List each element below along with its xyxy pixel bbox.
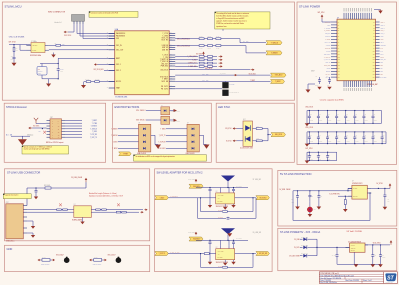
svg-text:USB_RE: USB_RE xyxy=(162,49,168,51)
svg-text:VDD_1: VDD_1 xyxy=(116,64,121,66)
power arrow left GND group xyxy=(39,259,40,261)
MCU U? STM32F723 main xyxy=(337,19,376,80)
svg-text:T_NRST: T_NRST xyxy=(112,148,118,150)
capacitor C row1 #8 100nF xyxy=(372,111,374,117)
wire USB D- to filter xyxy=(27,209,74,211)
svg-text:T_SWDIO: T_SWDIO xyxy=(91,126,98,128)
svg-text:Ceramic capacitor (Low ESR): Ceramic capacitor (Low ESR) xyxy=(320,98,344,101)
svg-text:3V3_STLK_MCU: 3V3_STLK_MCU xyxy=(94,69,104,71)
power flag above pill xyxy=(195,233,197,235)
svg-text:100nF: 100nF xyxy=(356,141,359,143)
wire shifter to output pill xyxy=(235,197,256,199)
level shifter IC SN74LVC1T45 xyxy=(216,249,235,260)
svg-text:T_VCP_TX: T_VCP_TX xyxy=(159,135,166,137)
block frame ST-LINK POWER 3V3 xyxy=(278,228,397,270)
wire enable to IC xyxy=(338,195,352,197)
svg-text:T_SWO: T_SWO xyxy=(113,141,118,143)
svg-text:OSC_IN: OSC_IN xyxy=(326,62,331,64)
wire U5A to series resistors row1 xyxy=(175,38,199,40)
wire rail to shifter VccA drop xyxy=(220,192,222,194)
wire bus to LDO xyxy=(317,246,350,248)
gnd rail row2 xyxy=(307,143,386,145)
svg-text:STLK_TX: STLK_TX xyxy=(161,38,168,40)
svg-text:STLINKV3E_MB?: STLINKV3E_MB? xyxy=(367,84,378,86)
svg-text:USBLC6-4SC6: USBLC6-4SC6 xyxy=(186,153,195,155)
bias resistor R 10K vertical xyxy=(13,45,15,48)
jumper resistor to plane xyxy=(92,259,93,261)
svg-text:PH0: PH0 xyxy=(380,48,383,50)
svg-text:T_JTDI: T_JTDI xyxy=(163,57,169,59)
ground triangle below rail xyxy=(354,264,359,267)
svg-text:ST-LINK POWER: ST-LINK POWER xyxy=(299,5,320,9)
U? left pins xyxy=(331,21,337,23)
svg-text:STLK_MCO: STLK_MCO xyxy=(160,76,169,78)
power flag into STDC14 xyxy=(30,127,32,129)
svg-text:T_5V_PWR_EN: T_5V_PWR_EN xyxy=(329,193,340,195)
power flag above pill xyxy=(195,181,197,183)
svg-text:DIR GND: DIR GND xyxy=(218,201,223,203)
series resistor sub2 input xyxy=(204,253,209,255)
svg-text:R? 15: R? 15 xyxy=(208,36,212,38)
svg-text:100nF: 100nF xyxy=(365,141,368,143)
svg-text:T_SWCLK: T_SWCLK xyxy=(111,135,118,137)
level shifter IC SN74LVC1T45 xyxy=(216,193,235,204)
svg-text:100nF: 100nF xyxy=(319,141,322,143)
power flag row into U5A left xyxy=(96,64,98,66)
wire STDC14 to net T_NRST xyxy=(65,119,82,121)
svg-text:100nF: 100nF xyxy=(374,141,377,143)
svg-text:C?_DNF: C?_DNF xyxy=(218,217,223,219)
output wire VDD_STLK xyxy=(365,244,390,246)
svg-text:R?__L5R: R?__L5R xyxy=(243,41,248,43)
wire to gnd STDC14 xyxy=(11,135,30,137)
output wire 5V_STLK xyxy=(371,187,390,189)
capacitor C row2 #2 100nF xyxy=(317,132,319,137)
capacitor C 4.7uF input xyxy=(297,191,299,196)
svg-text:100nF: 100nF xyxy=(328,141,331,143)
wire rail to shifter VccA drop xyxy=(220,246,222,249)
pill STLK_MCO xyxy=(271,73,287,77)
wire U5A NRST to pill T_NRST xyxy=(175,81,270,83)
svg-text:100nF: 100nF xyxy=(356,120,359,122)
svg-text:USBLC6-4SC6: USBLC6-4SC6 xyxy=(137,153,146,155)
svg-text:GND?: GND? xyxy=(311,71,315,73)
series resistor on D- line xyxy=(57,209,62,211)
ground rail of LDO xyxy=(337,263,381,265)
svg-text:VDD OUT: VDD OUT xyxy=(32,45,37,47)
svg-text:VDD_1: VDD_1 xyxy=(380,22,384,24)
svg-text:5V_USB: 5V_USB xyxy=(294,239,299,241)
svg-text:VDD_STLK: VDD_STLK xyxy=(305,127,313,129)
power flag 3V3_STLK at SWD xyxy=(65,31,67,33)
pill VDD_MCU xyxy=(189,184,203,188)
ground plane triangle xyxy=(227,233,232,237)
pill T_PWR_EN above U5A xyxy=(217,25,230,28)
capacitor C row2 #9 100nF xyxy=(381,132,383,137)
power flag 3V3_STLK middle xyxy=(203,53,205,55)
ground under oscillator xyxy=(53,53,55,55)
capacitor C row1 #4 100nF xyxy=(336,111,338,117)
net row LED_STLK xyxy=(175,69,250,71)
svg-text:T_NRST: T_NRST xyxy=(275,81,281,83)
vdd plane triangle xyxy=(221,176,235,182)
block frame ST-LINK POWER xyxy=(297,2,397,164)
note connector on border of PCB xyxy=(89,12,138,18)
svg-text:SW LEVEL ADAPTER FOR MCO_STM 2: SW LEVEL ADAPTER FOR MCO_STM 2 xyxy=(157,172,204,175)
svg-text:U?: U? xyxy=(216,191,218,193)
power arrow left GND group xyxy=(91,259,92,261)
wire bead to 5V flag xyxy=(51,187,86,189)
ground below LED xyxy=(308,214,313,217)
svg-text:U?: U? xyxy=(216,247,218,249)
svg-text:IN OUT: IN OUT xyxy=(353,188,357,190)
capacitor C17 xyxy=(13,52,15,55)
svg-text:STDC14 Receiver: STDC14 Receiver xyxy=(6,105,27,109)
wire rail to shifter VccA xyxy=(220,240,222,245)
ground stub LDO xyxy=(353,252,355,264)
DNF cross mark on D line xyxy=(59,203,62,206)
svg-text:EN BYP: EN BYP xyxy=(351,250,355,252)
wire 3V3 rail to oscillator xyxy=(9,44,31,46)
ground of right ESD array xyxy=(199,134,203,136)
wire STDC14 to net T_SWCLK xyxy=(65,128,82,130)
wire R to U5A OSC_IN xyxy=(61,44,115,46)
svg-text:MCO: MCO xyxy=(327,24,330,26)
svg-text:C?_1n: C?_1n xyxy=(60,68,64,70)
svg-text:100nF: 100nF xyxy=(346,141,349,143)
svg-text:C?_100nF: C?_100nF xyxy=(236,238,242,240)
svg-text:R? 15: R? 15 xyxy=(199,36,203,38)
svg-text:BYP_REG: BYP_REG xyxy=(380,77,386,79)
oscillator X1 8MHz xyxy=(31,43,45,53)
svg-text:STLK_TX: STLK_TX xyxy=(325,22,331,24)
ground below right capacitor xyxy=(231,205,235,208)
svg-text:R? 0R: R? 0R xyxy=(94,257,98,259)
svg-text:Made for Plane: Made for Plane xyxy=(41,264,50,266)
svg-text:PB_OUT2: PB_OUT2 xyxy=(161,88,168,90)
svg-text:T_VCP_RX: T_VCP_RX xyxy=(90,134,97,136)
capacitor C row1 #1 100nF xyxy=(308,111,310,117)
svg-text:T_JTCK: T_JTCK xyxy=(162,33,168,35)
svg-text:GND NC: GND NC xyxy=(351,248,356,250)
wire rail row3 xyxy=(307,151,337,153)
svg-text:OSC_OUT: OSC_OUT xyxy=(324,65,330,67)
U? top pins xyxy=(343,13,345,19)
U? right pins xyxy=(376,21,380,23)
capacitor C row2 #7 100nF xyxy=(363,132,365,137)
capacitor C 1uF under U? xyxy=(329,77,331,80)
ESD channel T_VCP_TX right array xyxy=(192,134,194,136)
capacitor C row2 #6 100nF xyxy=(354,132,356,137)
svg-text:3V3_STLK: 3V3_STLK xyxy=(64,35,71,37)
svg-text:100nF: 100nF xyxy=(383,141,386,143)
svg-text:T_NRST: T_NRST xyxy=(250,80,256,82)
capacitor C row2 #1 100nF xyxy=(308,132,310,137)
svg-text:LED_STLK: LED_STLK xyxy=(275,134,282,136)
svg-text:PH1: PH1 xyxy=(380,51,383,53)
svg-text:-C17: -C17 xyxy=(10,56,13,58)
svg-text:SB?: SB? xyxy=(38,68,41,70)
capacitor C row2 #8 100nF xyxy=(372,132,374,137)
block frame 5V ST-LINK PROTECTION xyxy=(278,170,397,226)
svg-text:100nF: 100nF xyxy=(337,120,340,122)
svg-text:100nF: 100nF xyxy=(382,257,386,259)
capacitor C row1 #7 100nF xyxy=(363,111,365,117)
svg-text:NX3225GD 8MHz: NX3225GD 8MHz xyxy=(30,55,41,57)
svg-text:Made for Plane: Made for Plane xyxy=(93,264,102,266)
wire USB ID to ground xyxy=(27,220,33,222)
svg-text:GND: GND xyxy=(7,247,13,251)
svg-text:1uF: 1uF xyxy=(319,158,321,160)
ground below input cap xyxy=(295,207,300,210)
block frame STDC14 xyxy=(4,103,105,162)
svg-text:PCB: MB1440_V3E rev B: PCB: MB1440_V3E rev B xyxy=(320,273,338,275)
svg-text:STLK_RX: STLK_RX xyxy=(325,42,331,44)
ESD channel T_NRST left array xyxy=(143,147,145,149)
no-connect cross on STDC14 xyxy=(43,131,46,134)
DNF capacitor loop xyxy=(197,198,199,219)
jumper resistor to plane xyxy=(41,259,42,261)
pill VDD_MCU xyxy=(189,237,203,241)
svg-text:File: STLINK_V3E.SchDoc: File: STLINK_V3E.SchDoc xyxy=(320,282,337,284)
svg-text:BOOT0: BOOT0 xyxy=(326,71,331,73)
svg-text:T_VCP_TX: T_VCP_TX xyxy=(324,56,331,58)
svg-text:C?_100nF: C?_100nF xyxy=(236,185,242,187)
svg-text:VD?: VD? xyxy=(38,130,41,132)
diode OR bus xyxy=(316,239,318,256)
ESD diode D? top 1 xyxy=(161,107,170,115)
svg-text:T_SWDIO: T_SWDIO xyxy=(271,53,279,55)
ESD array U? USBLC6-4 right xyxy=(187,124,199,152)
svg-text:impedance lines.: impedance lines. xyxy=(216,26,227,28)
USB connector CN? micro-B xyxy=(6,204,24,239)
svg-text:ST-LINK USB CONNECTOR: ST-LINK USB CONNECTOR xyxy=(7,171,40,175)
svg-text:VDD_2: VDD_2 xyxy=(116,70,121,72)
capacitor C reset 4.7uF xyxy=(57,65,59,69)
wire IC input jog xyxy=(347,188,349,190)
block frame STLINK_MCU xyxy=(2,2,294,100)
ground below boot resistors xyxy=(83,82,85,85)
oscillator pin stubs xyxy=(27,44,32,46)
power flag into LED anode2 xyxy=(234,140,236,142)
svg-text:4K7: 4K7 xyxy=(257,126,260,128)
svg-text:LED_STLK: LED_STLK xyxy=(160,69,168,71)
wire VBUS from connector xyxy=(26,188,28,206)
svg-text:T_SWO: T_SWO xyxy=(326,45,331,47)
svg-text:VSS: VSS xyxy=(116,38,119,40)
ESD channel T_VBUS right array xyxy=(192,128,194,130)
ESD diode D? top 2 xyxy=(161,116,170,124)
svg-text:PE4: PE4 xyxy=(380,68,383,70)
svg-text:BOOT0: BOOT0 xyxy=(116,81,121,83)
capacitor C row2 #4 100nF xyxy=(336,132,338,137)
svg-text:U?: U? xyxy=(139,123,141,125)
capacitor close to pin1 xyxy=(35,188,37,191)
svg-text:C?_1uF: C?_1uF xyxy=(332,255,336,257)
vdd rail wire xyxy=(196,239,248,241)
wire into top ESD 1 xyxy=(146,109,161,111)
svg-text:T_SWDIO: T_SWDIO xyxy=(111,128,117,130)
svg-text:R?_DNF: R?_DNF xyxy=(218,210,223,212)
svg-text:USB_DP: USB_DP xyxy=(162,47,168,49)
svg-text:VSS_2: VSS_2 xyxy=(380,33,384,35)
DNF resistor loop xyxy=(200,198,202,212)
wire LED1 to resistor xyxy=(253,128,257,130)
capacitor C row3 #2 xyxy=(317,152,319,155)
pill T_SWDIO xyxy=(266,51,282,55)
ground below output cap 1 xyxy=(371,264,376,267)
output pill xyxy=(256,252,270,256)
capacitor C row2 #5 100nF xyxy=(345,132,347,137)
svg-text:3C?__L5R: 3C?__L5R xyxy=(202,74,208,76)
antenna shield symbol xyxy=(35,120,37,123)
svg-text:T_VCP_TX: T_VCP_TX xyxy=(90,137,97,139)
svg-text:USB_DP: USB_DP xyxy=(325,36,330,38)
wire STDC14 to net T_VCP_TX xyxy=(65,136,82,138)
svg-text:IN OUT: IN OUT xyxy=(351,245,355,247)
svg-text:EXT-COLM-?: EXT-COLM-? xyxy=(108,255,116,257)
svg-text:USB_DM: USB_DM xyxy=(162,45,169,47)
capacitor C mid xyxy=(309,191,311,196)
gnd arrow top ESD 1 xyxy=(170,109,174,111)
svg-text:T_MCO: T_MCO xyxy=(159,197,164,199)
input capacitor LDO xyxy=(336,247,338,253)
vdd plane triangle xyxy=(221,228,235,234)
DNF resistor loop xyxy=(200,254,202,268)
svg-text:4.7uF: 4.7uF xyxy=(291,201,294,203)
svg-text:T_SWDIO: T_SWDIO xyxy=(324,27,330,29)
main 5V wire xyxy=(293,190,352,192)
transistor Q1 SOT23 xyxy=(222,82,228,88)
svg-text:PE5: PE5 xyxy=(380,71,383,73)
wire into top ESD 2 xyxy=(146,119,161,121)
U5A right pins with names xyxy=(169,33,175,35)
svg-text:DIR GND: DIR GND xyxy=(218,256,223,258)
resistor R? 12M xyxy=(56,44,61,46)
ground row1 xyxy=(305,123,310,126)
FLG loop wire xyxy=(292,191,294,221)
svg-text:STLK_MCO: STLK_MCO xyxy=(158,148,165,150)
svg-text:T_NRST: T_NRST xyxy=(325,39,330,41)
svg-text:3C?__L2R: 3C?__L2R xyxy=(202,80,208,82)
note routing of leads (top right of block A) xyxy=(215,12,270,29)
wire input to shifter xyxy=(168,253,215,255)
svg-text:STLK_SWDIO 1: STLK_SWDIO 1 xyxy=(136,110,146,112)
svg-text:T_VCP_RX: T_VCP_RX xyxy=(323,59,330,61)
svg-text:R? 15: R? 15 xyxy=(216,48,220,50)
block frame ESD PROTECTIONS xyxy=(113,103,212,162)
svg-text:LED_STLK: LED_STLK xyxy=(205,68,212,70)
svg-text:100nF: 100nF xyxy=(374,120,377,122)
wire SWD pin2 to U5A SWCLK xyxy=(76,24,78,34)
ground below right capacitor xyxy=(231,262,235,265)
svg-text:100nF: 100nF xyxy=(315,85,319,87)
ground below shifter xyxy=(224,260,226,263)
wire U5A MCO to pill STLK_MCO xyxy=(175,74,270,76)
wire SWD pin3 to U5A SWDIO xyxy=(79,24,81,36)
svg-text:100nF: 100nF xyxy=(319,120,322,122)
svg-text:EXT-COLM-?: EXT-COLM-? xyxy=(56,255,64,257)
wire X1 to U5A OSC_OUT xyxy=(49,49,115,51)
ground row2 xyxy=(305,144,310,147)
wire VDD rail row1 xyxy=(307,110,382,112)
svg-text:T_JTDO: T_JTDO xyxy=(162,55,169,57)
wire pill to U5A top xyxy=(222,29,224,31)
svg-text:U?: U? xyxy=(74,204,76,206)
svg-text:PDR_ON: PDR_ON xyxy=(380,59,385,61)
power arrow right GND group xyxy=(104,259,105,261)
svg-text:T_JTDI: T_JTDI xyxy=(326,51,331,53)
svg-text:CN?: CN? xyxy=(6,202,9,204)
U5A left pins with names xyxy=(109,33,115,35)
ESD channel T_VCP_RX right array xyxy=(192,141,194,143)
wire shifter to output pill xyxy=(235,253,256,255)
wire SWD pin4 to U5A GND xyxy=(82,24,84,39)
wire row2 to pill T_SWDIO xyxy=(221,45,246,47)
input pill xyxy=(155,196,169,200)
svg-text:5V_USB_CHGR: 5V_USB_CHGR xyxy=(289,255,299,257)
svg-text:PE6: PE6 xyxy=(380,74,383,76)
svg-text:STLINK_MCU: STLINK_MCU xyxy=(5,5,22,9)
svg-text:R?_10K: R?_10K xyxy=(95,79,99,81)
LDO output capacitor 2 xyxy=(380,245,382,253)
power flag 5V_USB_CHGR xyxy=(85,179,87,182)
gnd arrow top ESD 2 xyxy=(170,119,174,121)
wire VDD rail row2 xyxy=(307,131,386,133)
svg-text:STLK_SWCLK 1: STLK_SWCLK 1 xyxy=(136,120,146,122)
connector CN STDC14 xyxy=(50,119,62,139)
svg-text:3.3 Volt LT-1/2SE: 3.3 Volt LT-1/2SE xyxy=(346,230,362,233)
svg-text:OSC_IN: OSC_IN xyxy=(116,45,122,47)
wire input to shifter xyxy=(168,197,215,199)
note specific constraints for SWDIO pair xyxy=(22,146,69,154)
power switch U? STMPS2151STR xyxy=(352,185,367,199)
svg-text:STLK_MCO: STLK_MCO xyxy=(249,74,256,76)
svg-text:VCP_RX_3V3: VCP_RX_3V3 xyxy=(259,253,267,255)
svg-text:OSC_OUT: OSC_OUT xyxy=(116,49,123,51)
svg-text:T_SWO_IN: T_SWO_IN xyxy=(160,61,168,63)
wire USB D+ to filter xyxy=(27,211,74,213)
svg-text:CN?: CN? xyxy=(50,117,53,119)
svg-text:PC15: PC15 xyxy=(380,56,383,58)
wire STDC14 to net T_SWO xyxy=(65,131,82,133)
capacitor C row1 #2 100nF xyxy=(317,111,319,117)
block frame ST-LINK USB CONNECTOR xyxy=(5,169,150,241)
common mode filter ECMF02 xyxy=(74,206,92,218)
svg-text:VD_LINE_3V3: VD_LINE_3V3 xyxy=(253,232,262,234)
svg-text:Header 4x1: Header 4x1 xyxy=(54,22,61,24)
ST logo xyxy=(385,273,396,281)
series resistors after filter xyxy=(96,209,101,211)
svg-text:5V_USB_CHGR: 5V_USB_CHGR xyxy=(279,189,291,191)
wire rail to shifter VccA xyxy=(220,188,222,193)
resistor R 2K2 xyxy=(253,140,257,142)
capacitor C row1 #5 100nF xyxy=(345,111,347,117)
ferrite bead FB? xyxy=(45,187,51,189)
pins of SWD connector xyxy=(73,21,75,24)
svg-text:SWD CONNECTOR: SWD CONNECTOR xyxy=(48,12,66,14)
ground below output cap xyxy=(383,207,388,210)
svg-text:R? 15: R? 15 xyxy=(208,48,212,50)
wire U5A to series resistors row2 xyxy=(175,45,199,47)
svg-text:5V ST-LINK PROTECTION: 5V ST-LINK PROTECTION xyxy=(280,172,312,176)
svg-text:T_VBUS: T_VBUS xyxy=(160,128,166,130)
wire rows to transistor Q2 xyxy=(175,88,222,90)
wire X1 out to R xyxy=(49,44,56,46)
svg-text:3V3_STLK: 3V3_STLK xyxy=(305,148,312,150)
svg-text:STLINKV3E_MB1: STLINKV3E_MB1 xyxy=(115,97,127,99)
svg-text:VDD_3: VDD_3 xyxy=(380,27,384,29)
